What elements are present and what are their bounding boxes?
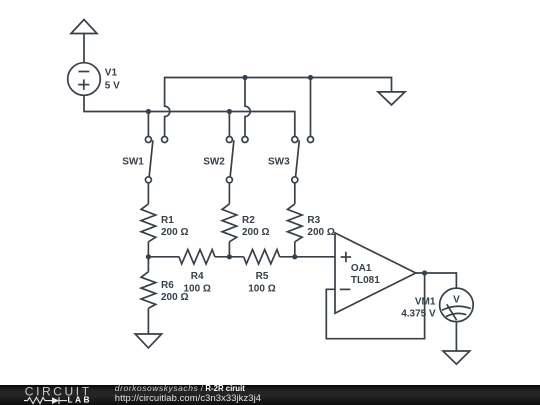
wire ladder to R6: [147, 257, 149, 272]
wire ground bus to SW2 right terminal (hop over 5V bus): [245, 78, 250, 137]
node output junction: [422, 270, 427, 275]
wire V1 to 5V bus: [84, 95, 295, 136]
OA1 labels: [351, 263, 380, 286]
svg-text:200 Ω: 200 Ω: [161, 292, 188, 303]
power flag (5V): [71, 20, 97, 63]
svg-text:R2: R2: [242, 215, 255, 226]
svg-text:R3: R3: [307, 215, 320, 226]
V1 value labels: [105, 68, 120, 92]
footer bar: [0, 385, 540, 405]
svg-text:100 Ω: 100 Ω: [248, 284, 275, 295]
resistor R2: [222, 204, 237, 242]
node ladder junction R3: [292, 254, 297, 259]
svg-text:SW3: SW3: [268, 156, 290, 167]
svg-text:200 Ω: 200 Ω: [161, 227, 188, 238]
wire ladder segment R1 to R4: [148, 256, 179, 258]
wire R6 to ground: [147, 308, 149, 334]
node 5V bus junction SW2: [227, 109, 232, 114]
svg-text:R6: R6: [161, 280, 174, 291]
resistor R6: [141, 272, 156, 309]
R3 labels: [307, 215, 334, 238]
svg-text:200 Ω: 200 Ω: [242, 227, 269, 238]
svg-text:LAB: LAB: [68, 395, 92, 405]
wire voltmeter to ground: [455, 322, 457, 351]
wire R3 to ladder: [294, 242, 296, 257]
wire 5V bus to SW2 left terminal: [228, 112, 230, 137]
svg-text:4.375 V: 4.375 V: [401, 308, 436, 319]
svg-text:200 Ω: 200 Ω: [307, 227, 334, 238]
op-amp minus input marker: [340, 288, 351, 290]
wire ground bus to SW3 right terminal: [310, 78, 312, 137]
resistor R3: [288, 204, 303, 242]
svg-text:http://circuitlab.com/c3n3x33j: http://circuitlab.com/c3n3x33jkz3j4: [115, 392, 261, 403]
wire op-amp output: [416, 273, 457, 288]
svg-text:V: V: [453, 294, 460, 305]
svg-text:SW2: SW2: [203, 156, 225, 167]
ground (below voltmeter): [443, 351, 470, 364]
wire R1 to ladder: [147, 242, 149, 257]
svg-text:OA1: OA1: [351, 263, 372, 274]
wire 5V bus to SW1 left terminal: [147, 112, 149, 137]
svg-text:R1: R1: [161, 215, 174, 226]
svg-text:5 V: 5 V: [105, 80, 120, 91]
R6 labels: [161, 280, 188, 303]
switch SW1: [145, 137, 167, 183]
wire SW2 to R2: [228, 183, 230, 204]
wire R2 to ladder: [228, 242, 230, 257]
svg-text:TL081: TL081: [351, 275, 380, 286]
svg-text:V1: V1: [105, 68, 118, 79]
footer logo resistor-diode glyph: [24, 397, 67, 404]
wire ladder segment R5 to op-amp: [280, 256, 335, 258]
svg-text:R5: R5: [256, 271, 269, 282]
node ground bus junction SW3: [308, 75, 313, 80]
node ladder junction R1: [146, 254, 151, 259]
svg-text:SW1: SW1: [122, 156, 144, 167]
ground (below R6): [135, 334, 161, 348]
wire ladder segment R4 to R5: [215, 256, 244, 258]
voltmeter VM1: [440, 288, 474, 322]
ground (top right): [378, 92, 405, 105]
R1 labels: [161, 215, 188, 238]
resistor R1: [141, 204, 156, 242]
node 5V bus junction SW1: [146, 109, 151, 114]
node ladder junction R2: [227, 254, 232, 259]
op-amp plus input marker: [341, 252, 351, 262]
resistor R5: [244, 250, 280, 264]
switch SW3: [292, 137, 314, 183]
switch SW2: [226, 137, 248, 183]
op-amp OA1: [335, 233, 416, 313]
wire ground bus: [165, 78, 392, 137]
voltage source V1: [68, 63, 101, 96]
svg-text:VM1: VM1: [415, 296, 436, 307]
svg-text:R4: R4: [191, 271, 204, 282]
R2 labels: [242, 215, 269, 238]
wire feedback loop (minus input to output): [326, 273, 424, 339]
R5 labels: [248, 271, 275, 295]
resistor R4: [179, 250, 215, 264]
VM1 labels: [401, 296, 436, 319]
wire SW3 to R3: [294, 183, 296, 204]
node ground bus junction SW2: [242, 75, 247, 80]
R4 labels: [183, 271, 210, 295]
wire SW1 to R1: [147, 183, 149, 204]
